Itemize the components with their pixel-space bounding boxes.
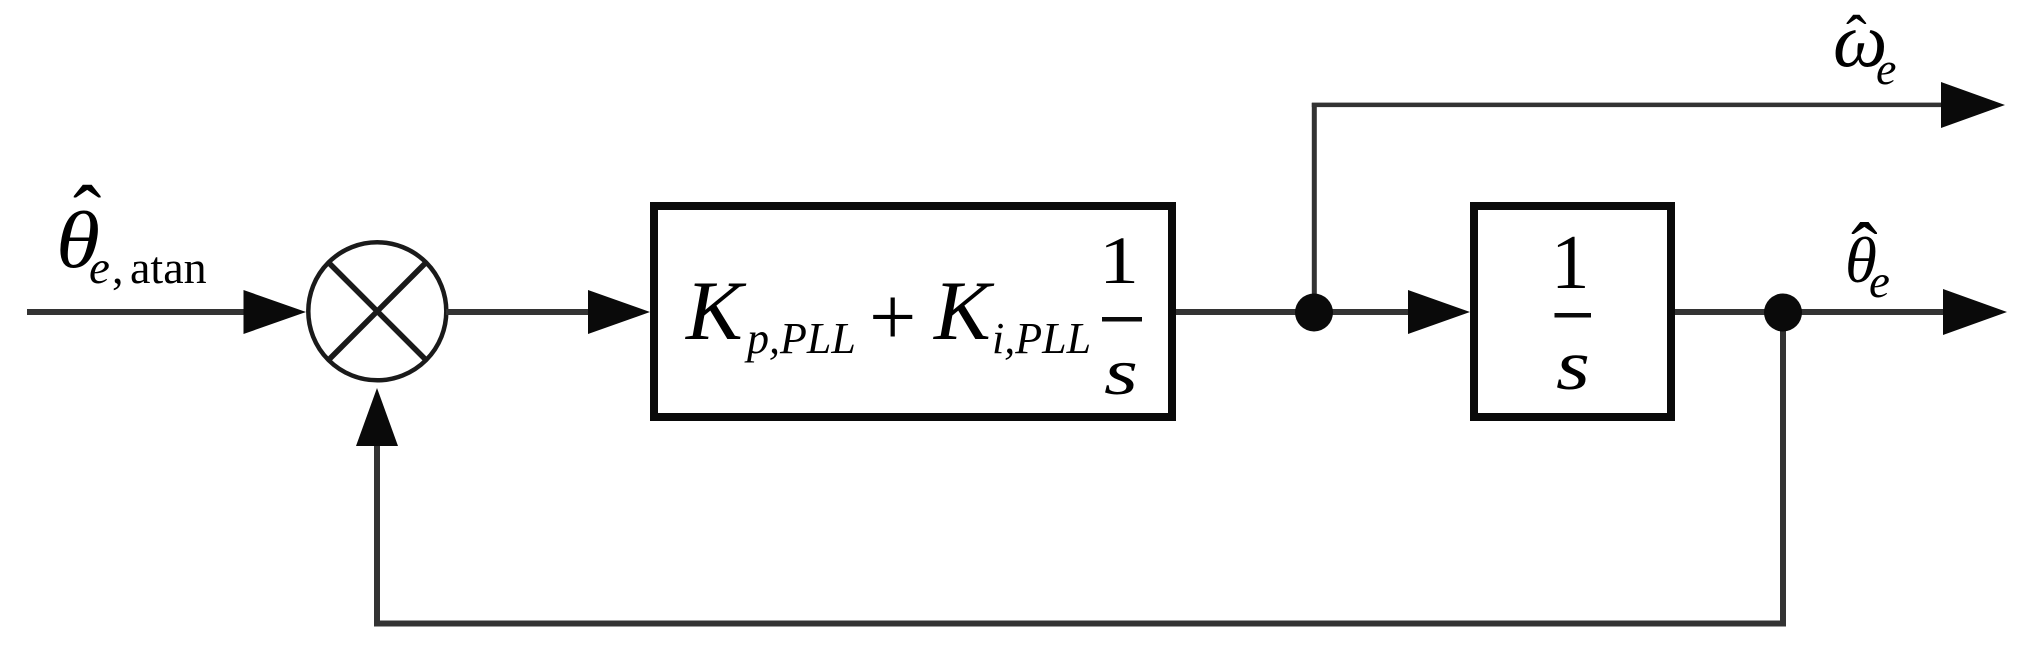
svg-text:K: K xyxy=(685,264,747,358)
svg-text:e: e xyxy=(1869,256,1890,308)
arrowhead into block G1 xyxy=(588,290,650,334)
arrowhead into block G2 xyxy=(1408,290,1470,334)
svg-text:1: 1 xyxy=(1099,222,1139,298)
svg-text:1: 1 xyxy=(1551,219,1590,305)
svg-text:s: s xyxy=(1104,336,1138,409)
label fraction 1/s in G2 xyxy=(1551,219,1591,405)
label fraction 1/s in G1 xyxy=(1099,222,1142,409)
arrowhead input xyxy=(244,290,307,334)
wire summing junction to block G1 xyxy=(446,309,591,315)
svg-text:s: s xyxy=(1556,327,1590,405)
label K_p,PLL xyxy=(685,264,856,363)
svg-text:i,PLL: i,PLL xyxy=(992,314,1091,363)
wire feedback bottom xyxy=(374,621,1786,627)
wire top to omega output xyxy=(1312,103,1944,108)
svg-text:atan: atan xyxy=(130,242,207,293)
wire node A to block G2 xyxy=(1314,309,1412,315)
node B (junction dot) xyxy=(1764,294,1802,332)
summing junction X stroke 1 xyxy=(329,263,427,361)
wire feedback down from node B xyxy=(1780,312,1786,626)
wire node A up xyxy=(1312,103,1317,312)
svg-text:ˆ: ˆ xyxy=(1846,4,1867,72)
svg-text:+: + xyxy=(869,271,916,364)
wire node B to theta output xyxy=(1783,309,1944,315)
summing junction circle xyxy=(308,242,446,380)
node A (junction dot) xyxy=(1295,294,1333,332)
node label theta_e (output) xyxy=(1845,208,1890,308)
wire input xyxy=(27,309,246,315)
wire feedback up to summing junction xyxy=(374,446,380,626)
block G1 (PI controller) xyxy=(654,206,1172,417)
svg-text:K: K xyxy=(933,264,995,358)
svg-text:p,PLL: p,PLL xyxy=(744,314,856,363)
wire block G2 to node B xyxy=(1675,309,1785,315)
summing junction X stroke 2 xyxy=(329,263,427,361)
node label omega_e (output) xyxy=(1833,0,1896,94)
arrowhead omega output xyxy=(1941,82,2005,128)
svg-text:e: e xyxy=(1876,43,1896,94)
arrowhead feedback into summing junction xyxy=(356,388,398,446)
block G2 (integrator) xyxy=(1474,206,1671,417)
svg-text:e: e xyxy=(89,242,110,294)
node label theta_e_atan (input signal) xyxy=(56,169,207,294)
arrowhead theta output xyxy=(1943,289,2007,335)
svg-text:,: , xyxy=(112,242,124,293)
wire block G1 to node A xyxy=(1176,309,1316,315)
label K_i,PLL xyxy=(933,264,1091,363)
